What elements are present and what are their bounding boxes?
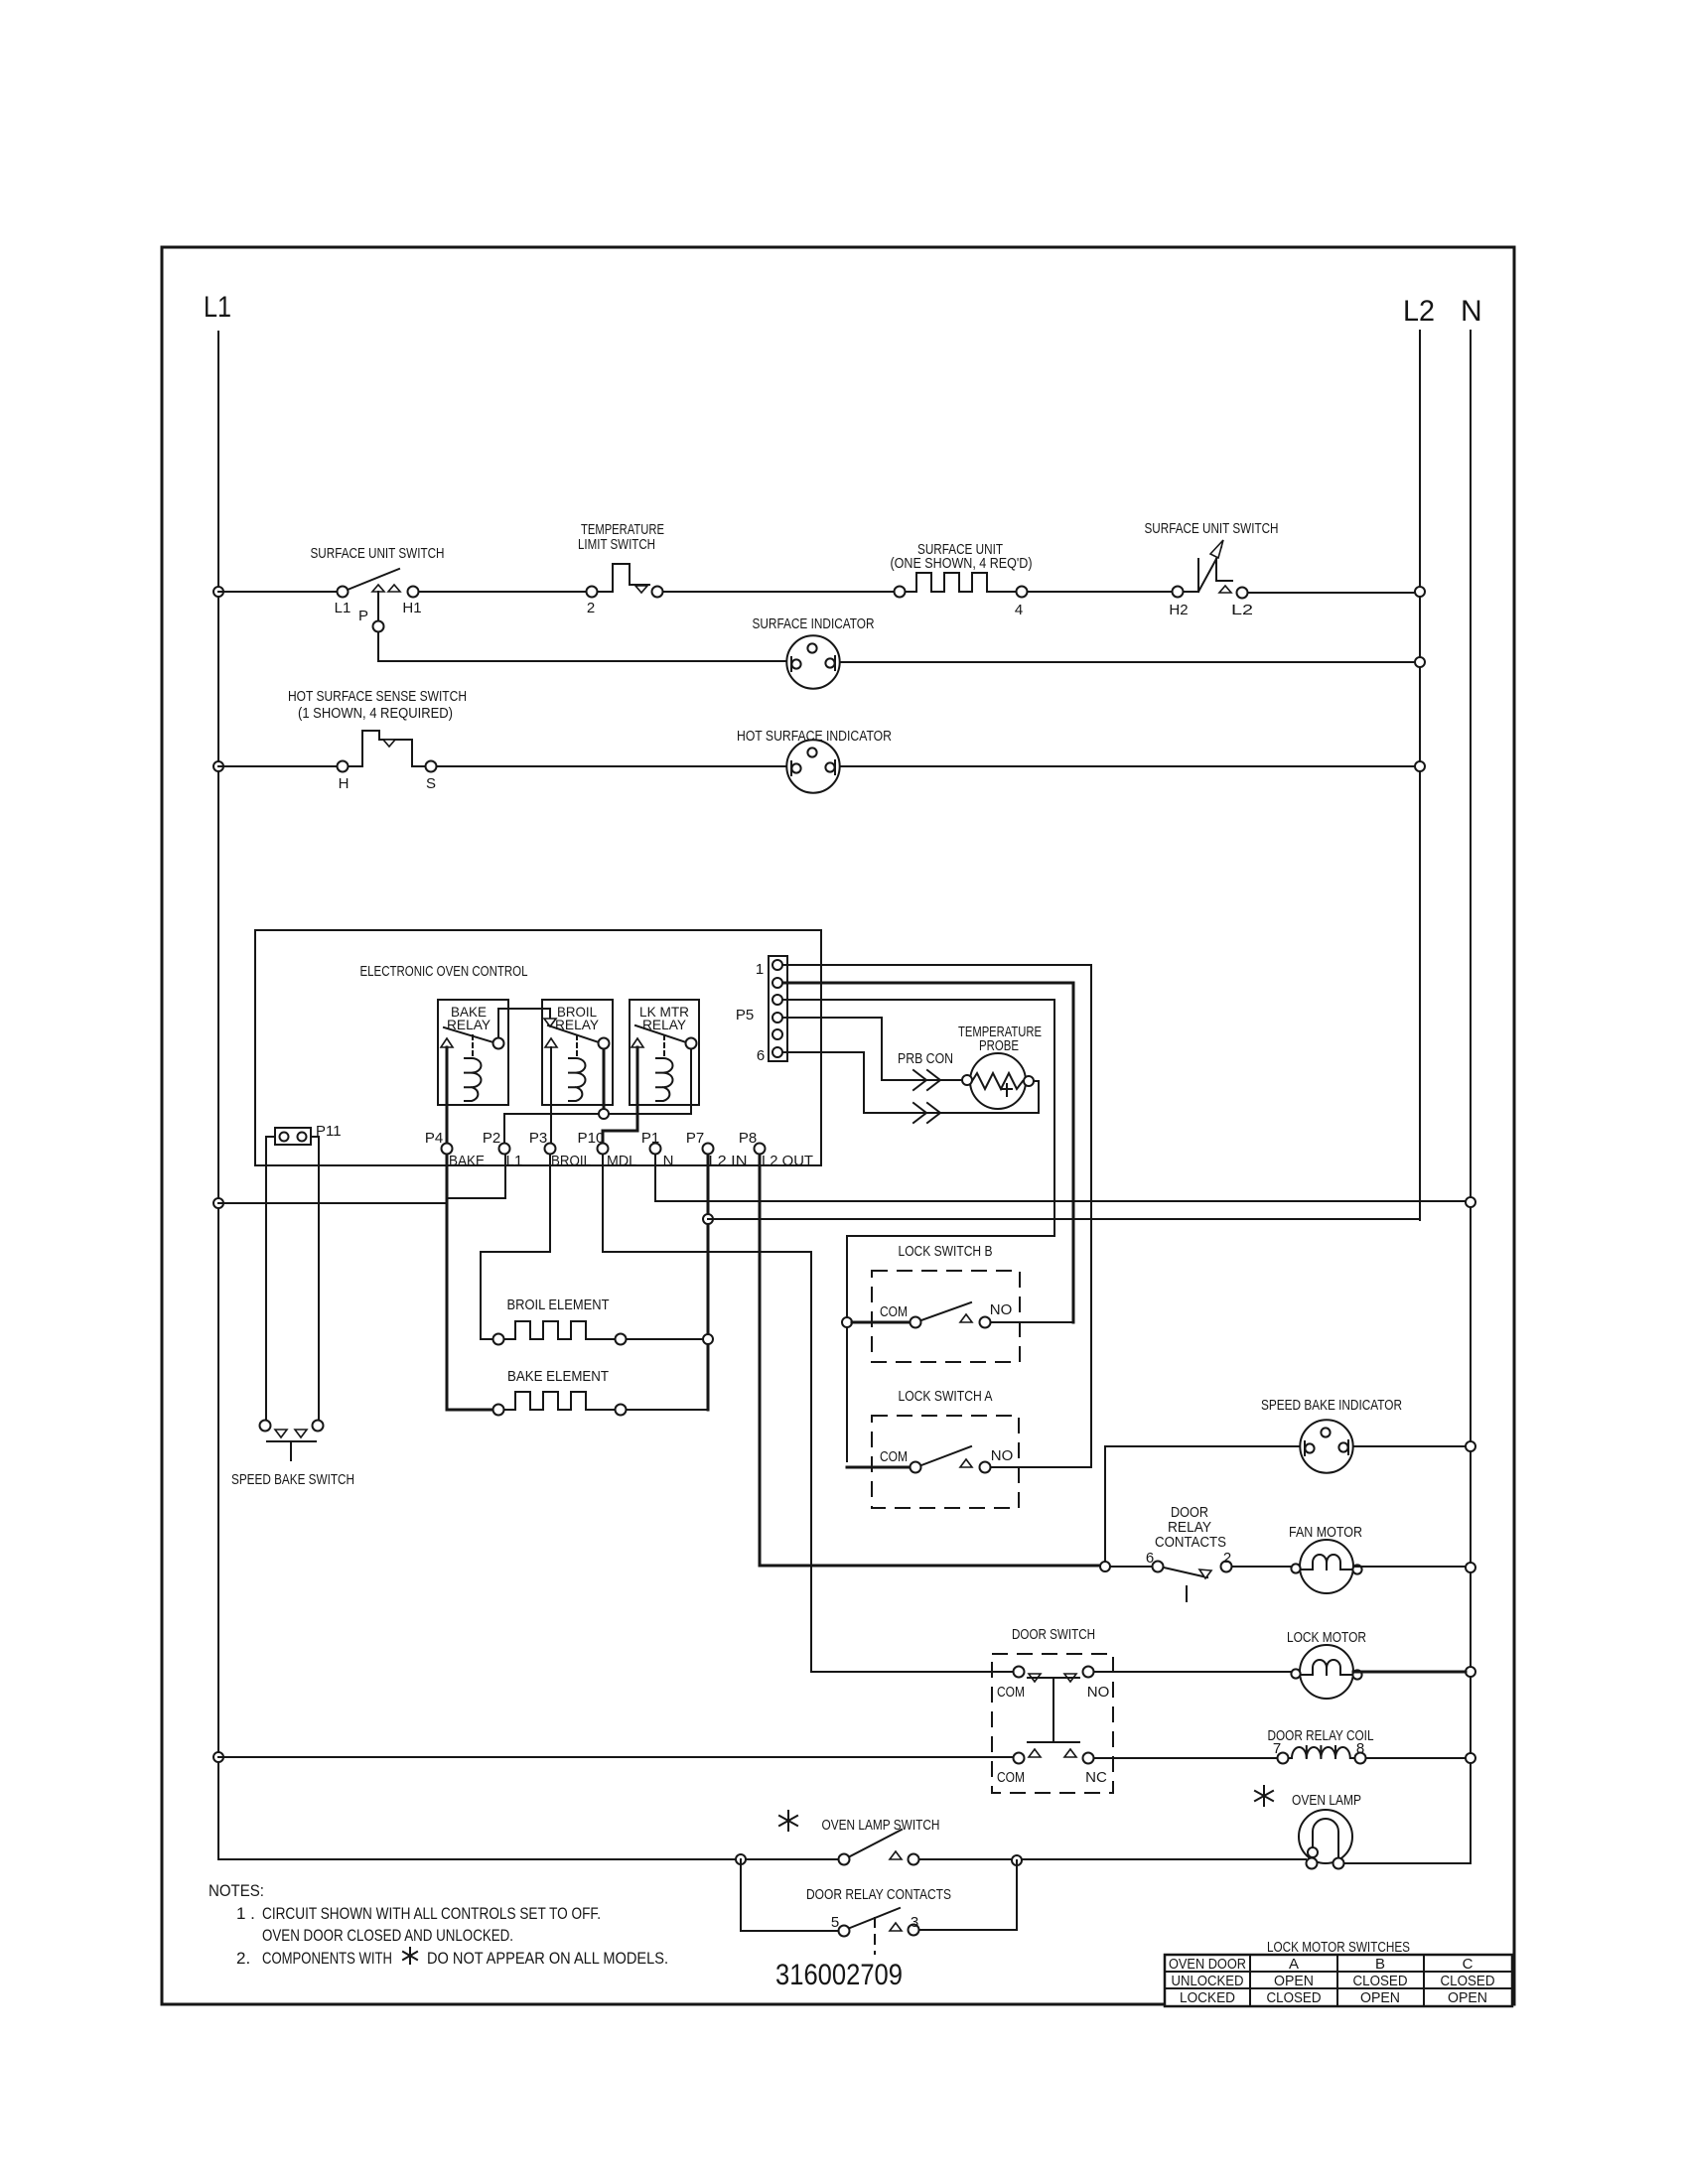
svg-text:COMPONENTS WITH: COMPONENTS WITH: [262, 1949, 392, 1968]
wire P5 pin1 to lock switch A NO: [783, 965, 1091, 1467]
svg-text:4: 4: [1015, 602, 1023, 618]
wire limit switch to surface unit: [663, 591, 894, 593]
svg-text:SURFACE INDICATOR: SURFACE INDICATOR: [753, 615, 875, 632]
svg-text:LOCK MOTOR: LOCK MOTOR: [1287, 1629, 1366, 1646]
wire relay common L1 line: [504, 1114, 691, 1143]
svg-text:(1 SHOWN, 4 REQUIRED): (1 SHOWN, 4 REQUIRED): [298, 705, 453, 722]
wire row1 L1 to switch: [218, 591, 337, 593]
switch temperature limit switch pin2: [587, 587, 598, 598]
motor fan motor M1: [1291, 1540, 1361, 1593]
wire P4 to bake element: [447, 1155, 492, 1410]
wire broil relay arm to P3: [550, 1047, 552, 1143]
svg-text:(ONE SHOWN, 4 REQ'D): (ONE SHOWN, 4 REQ'D): [891, 555, 1033, 572]
wire row3 indicator to L2: [840, 765, 1415, 767]
wire bake relay contact to broil relay: [498, 1009, 550, 1037]
svg-text:B: B: [1375, 1956, 1385, 1973]
resistor broil element: [493, 1321, 627, 1345]
switch oven lamp switch: [839, 1830, 919, 1865]
wire P5 pin6 to probe: [783, 1052, 1039, 1113]
actuator door switch T link: [1028, 1678, 1079, 1742]
svg-text:PRB CON: PRB CON: [898, 1050, 953, 1067]
svg-text:FAN MOTOR: FAN MOTOR: [1289, 1524, 1362, 1541]
wire row3 S to indicator: [437, 765, 786, 767]
wire P5 pin4 to probe: [783, 1018, 961, 1080]
svg-text:P7: P7: [686, 1130, 704, 1147]
svg-text:OVEN LAMP SWITCH: OVEN LAMP SWITCH: [822, 1817, 940, 1834]
svg-text:BROIL: BROIL: [551, 1153, 591, 1169]
pin P10: [598, 1144, 609, 1155]
wire row1 H1 to limit switch: [419, 591, 586, 593]
wire P11 left to speed bake switch: [266, 1137, 275, 1420]
lamp speed bake indicator: [1300, 1420, 1352, 1472]
wire P10 to lk mtr arm: [603, 1047, 637, 1143]
junction lock switch common B: [842, 1317, 852, 1327]
junction oven lamp row / contacts loop right: [1012, 1855, 1022, 1865]
junction L1-row3: [213, 761, 223, 771]
svg-text:L2: L2: [1403, 295, 1435, 328]
switch surface unit switch L1-H1: [338, 587, 349, 598]
relay lock motor relay K3: [630, 1000, 699, 1105]
resistor bake element: [493, 1392, 627, 1416]
svg-text:OPEN: OPEN: [1360, 1989, 1400, 2006]
svg-text:LOCK MOTOR SWITCHES: LOCK MOTOR SWITCHES: [1267, 1939, 1410, 1956]
wire P10 to door switch com: [603, 1155, 1013, 1672]
svg-text:OPEN: OPEN: [1448, 1989, 1487, 2006]
svg-text:ELECTRONIC OVEN CONTROL: ELECTRONIC OVEN CONTROL: [360, 963, 528, 980]
lamp surface indicator: [786, 635, 839, 688]
relay bake relay K1: [438, 1000, 508, 1105]
svg-text:P5: P5: [736, 1007, 754, 1024]
wire P5 pin2 to lock switch B NO: [783, 983, 1073, 1322]
svg-text:H: H: [339, 775, 350, 792]
svg-text:COM: COM: [880, 1448, 908, 1465]
resistor temperature probe RT1: [962, 1053, 1034, 1109]
junction broil contact common: [599, 1109, 609, 1119]
wire switch to L2 bus: [1248, 592, 1415, 594]
pin P7: [703, 1144, 714, 1155]
svg-text:H1: H1: [402, 600, 421, 616]
svg-text:OVEN LAMP: OVEN LAMP: [1292, 1792, 1361, 1809]
svg-text:CLOSED: CLOSED: [1353, 1973, 1408, 1989]
box lock switch A (dashed): [872, 1416, 1019, 1508]
wire row2 indicator to L2: [840, 661, 1415, 663]
wire row3 L1 to H: [218, 765, 337, 767]
wire lk mtr relay contact down: [690, 1049, 692, 1114]
svg-text:NO: NO: [990, 1301, 1013, 1318]
svg-text:P4: P4: [425, 1130, 443, 1147]
resistor surface unit element: [895, 587, 906, 598]
coil door relay coil: [1273, 1740, 1366, 1764]
box lock switch B (dashed): [872, 1271, 1020, 1362]
svg-text:1 .: 1 .: [236, 1904, 255, 1923]
junction door relay contacts row / indicator branch: [1100, 1562, 1110, 1571]
svg-text:DOOR SWITCH: DOOR SWITCH: [1012, 1626, 1095, 1643]
wire P1 to N bus: [655, 1155, 1466, 1201]
wire speed bake indicator to N: [1353, 1445, 1466, 1447]
wire N bus: [1344, 331, 1471, 1863]
switch lock switch A COM-NO: [847, 1446, 1013, 1473]
svg-text:H2: H2: [1169, 602, 1188, 618]
svg-text:2: 2: [1223, 1550, 1231, 1567]
svg-text:OPEN: OPEN: [1274, 1973, 1314, 1989]
switch door switch COM-NO: [997, 1667, 1109, 1702]
svg-text:CIRCUIT SHOWN WITH ALL CONTROL: CIRCUIT SHOWN WITH ALL CONTROLS SET TO O…: [262, 1904, 601, 1923]
wire L2 bus: [1419, 331, 1421, 1220]
wire P11 right to speed bake switch: [311, 1137, 319, 1420]
wire broil element to L2 junction: [627, 1338, 703, 1340]
junction N-lockmotorrow: [1466, 1667, 1475, 1677]
wire row2 P to indicator: [378, 660, 786, 662]
wire P3 to broil element: [481, 1155, 550, 1339]
switch door relay contacts 5-3: [831, 1908, 919, 1954]
wire fan motor to N: [1353, 1566, 1466, 1568]
svg-text:P8: P8: [739, 1130, 757, 1147]
svg-text:6: 6: [757, 1047, 765, 1064]
switch door relay contacts 6-2: [1110, 1550, 1232, 1601]
svg-text:L1: L1: [506, 1153, 523, 1169]
svg-text:A: A: [1289, 1956, 1299, 1973]
svg-text:COM: COM: [997, 1684, 1025, 1701]
junction oven lamp row / contacts loop left: [736, 1854, 746, 1864]
wire P8 L2 out to door relay contacts row: [760, 1155, 1105, 1566]
svg-text:HOT SURFACE SENSE SWITCH: HOT SURFACE SENSE SWITCH: [288, 688, 467, 705]
svg-text:3: 3: [911, 1914, 918, 1931]
node P pilot tap: [377, 592, 379, 620]
svg-text:BROIL ELEMENT: BROIL ELEMENT: [507, 1297, 610, 1313]
symbol asterisk oven lamp switch: [779, 1811, 797, 1831]
svg-text:L2 IN: L2 IN: [709, 1153, 748, 1169]
wire L2 in to bake element: [627, 1409, 708, 1411]
svg-text:DO NOT APPEAR ON ALL MODELS.: DO NOT APPEAR ON ALL MODELS.: [427, 1949, 668, 1968]
wire door switch NO to lock motor: [1094, 1671, 1300, 1673]
border frame: [162, 247, 1514, 2004]
lamp hot surface indicator: [786, 740, 839, 792]
junction N-speedbakerow: [1466, 1441, 1475, 1451]
svg-text:N: N: [663, 1153, 674, 1169]
wire surface unit to right switch: [1028, 591, 1172, 593]
svg-text:SURFACE UNIT SWITCH: SURFACE UNIT SWITCH: [311, 545, 445, 562]
pin P3: [545, 1144, 556, 1155]
wire L1 feed row to P2: [218, 1155, 505, 1203]
wire L2 row: [708, 1218, 1420, 1220]
svg-text:L1: L1: [335, 600, 351, 616]
wire P5 pin3 to lock switch common: [783, 1000, 1054, 1461]
wire lock motor to N: [1353, 1671, 1466, 1674]
box electronic oven control: [255, 930, 821, 1165]
pin P8: [755, 1144, 766, 1155]
svg-text:SPEED BAKE SWITCH: SPEED BAKE SWITCH: [231, 1471, 354, 1488]
junction broil element L2: [703, 1334, 713, 1344]
wire contacts to fan motor: [1232, 1566, 1300, 1568]
motor lock motor M2: [1291, 1645, 1361, 1699]
wire oven lamp switch to lamp: [919, 1858, 1306, 1860]
svg-text:5: 5: [831, 1914, 839, 1931]
svg-text:COM: COM: [997, 1769, 1025, 1786]
svg-text:2: 2: [587, 600, 595, 616]
svg-text:6: 6: [1146, 1550, 1154, 1567]
svg-text:CLOSED: CLOSED: [1441, 1973, 1495, 1989]
wire P7 L2 in down: [707, 1155, 710, 1410]
switch speed bake switch: [260, 1421, 324, 1461]
junction N-Nrow: [1466, 1197, 1475, 1207]
svg-text:8: 8: [1356, 1740, 1364, 1757]
switch lock switch B COM-NO: [852, 1301, 1012, 1328]
svg-text:LOCK SWITCH A: LOCK SWITCH A: [899, 1388, 993, 1405]
box door switch (dashed): [992, 1654, 1113, 1793]
svg-text:LOCKED: LOCKED: [1180, 1989, 1235, 2006]
svg-text:MDL: MDL: [607, 1153, 636, 1169]
connector P5: [736, 956, 787, 1064]
pin P4: [442, 1144, 453, 1155]
svg-text:P: P: [358, 608, 368, 624]
symbol asterisk oven lamp: [1255, 1786, 1273, 1806]
switch door switch COM-NC: [997, 1749, 1107, 1786]
junction L1-row1: [213, 587, 223, 597]
svg-text:SPEED BAKE INDICATOR: SPEED BAKE INDICATOR: [1261, 1397, 1402, 1414]
svg-text:NC: NC: [1085, 1769, 1107, 1786]
svg-text:P1: P1: [641, 1130, 659, 1147]
svg-text:CLOSED: CLOSED: [1267, 1989, 1322, 2006]
wire lock switch A NO out: [991, 1466, 1091, 1468]
svg-text:L2: L2: [1231, 602, 1253, 618]
svg-text:DOOR RELAY CONTACTS: DOOR RELAY CONTACTS: [806, 1886, 951, 1903]
wire lock switch B NO out: [991, 1321, 1073, 1323]
lamp oven lamp: [1299, 1810, 1352, 1869]
junction L2-row2: [1415, 657, 1425, 667]
svg-text:OVEN DOOR CLOSED AND UNLOCKED.: OVEN DOOR CLOSED AND UNLOCKED.: [262, 1926, 513, 1945]
svg-text:BAKE ELEMENT: BAKE ELEMENT: [507, 1368, 609, 1385]
relay broil relay K2: [542, 1000, 613, 1105]
svg-text:COM: COM: [880, 1303, 908, 1320]
wire door relay contacts 5-3 loop: [741, 1859, 1017, 1931]
svg-text:NO: NO: [1087, 1684, 1110, 1701]
junction L1-doorrelaycoilrow: [213, 1752, 223, 1762]
svg-text:N: N: [1461, 295, 1482, 328]
svg-text:P2: P2: [483, 1130, 500, 1147]
svg-text:S: S: [426, 775, 436, 792]
junction L1-L1row: [213, 1198, 223, 1208]
svg-text:LIMIT SWITCH: LIMIT SWITCH: [578, 536, 655, 553]
pin P2: [499, 1144, 510, 1155]
junction L2-row1: [1415, 587, 1425, 597]
wire bake relay arm to P4: [446, 1047, 449, 1143]
wire L1 to door switch com (door relay coil row): [218, 1756, 1013, 1758]
wire speed bake indicator branch: [1105, 1446, 1301, 1568]
svg-text:UNLOCKED: UNLOCKED: [1172, 1973, 1244, 1989]
svg-text:SURFACE UNIT SWITCH: SURFACE UNIT SWITCH: [1145, 520, 1279, 537]
svg-text:P10: P10: [578, 1130, 605, 1147]
junction L2-row3: [1415, 761, 1425, 771]
svg-text:P3: P3: [529, 1130, 547, 1147]
svg-text:2.: 2.: [236, 1949, 250, 1968]
svg-text:PROBE: PROBE: [979, 1037, 1019, 1054]
connector P11: [275, 1123, 342, 1145]
svg-text:L1: L1: [204, 291, 231, 324]
wire door switch NC to coil: [1094, 1757, 1277, 1759]
svg-text:LOCK SWITCH B: LOCK SWITCH B: [899, 1243, 993, 1260]
svg-text:316002709: 316002709: [775, 1959, 903, 1991]
switch surface unit switch H2-L2: [1173, 587, 1184, 598]
symbol asterisk note 2: [403, 1948, 417, 1964]
svg-text:BAKE: BAKE: [449, 1153, 485, 1169]
svg-text:C: C: [1463, 1956, 1473, 1973]
pin P1: [650, 1144, 661, 1155]
wire L1 bus: [217, 332, 219, 1859]
svg-text:NO: NO: [991, 1447, 1014, 1464]
switch hot surface sense switch H-S: [338, 761, 349, 772]
svg-text:CONTACTS: CONTACTS: [1155, 1534, 1226, 1551]
svg-text:7: 7: [1273, 1740, 1281, 1757]
wire oven lamp row from L1: [218, 1858, 838, 1860]
table lock motor switches: [1165, 1939, 1512, 2006]
wire oven lamp to N corner: [1344, 1862, 1471, 1864]
wire coil to N: [1366, 1757, 1466, 1759]
svg-text:L2 OUT: L2 OUT: [762, 1153, 813, 1169]
svg-text:OVEN DOOR: OVEN DOOR: [1169, 1956, 1246, 1973]
wire broil relay contact down: [603, 1049, 606, 1114]
svg-text:NOTES:: NOTES:: [209, 1881, 264, 1900]
svg-text:1: 1: [756, 961, 764, 978]
junction N-fanrow: [1466, 1563, 1475, 1572]
junction N-doorrelaycoilrow: [1466, 1753, 1475, 1763]
notes block: [209, 1881, 668, 1968]
junction P7 L2 row: [703, 1214, 713, 1224]
